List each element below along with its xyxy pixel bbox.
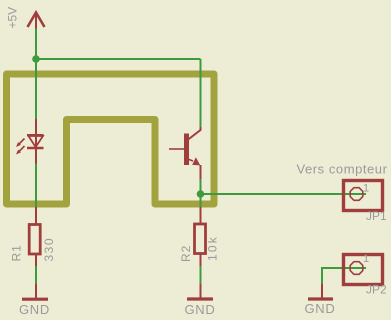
svg-text:JP1: JP1 [366, 209, 387, 223]
svg-text:JP2: JP2 [366, 283, 387, 297]
svg-text:1: 1 [363, 253, 369, 265]
svg-text:10k: 10k [206, 235, 220, 261]
svg-text:GND: GND [19, 302, 50, 317]
svg-text:R2: R2 [179, 245, 193, 262]
svg-text:GND: GND [305, 301, 336, 316]
svg-text:Vers compteur: Vers compteur [297, 162, 388, 177]
svg-text:GND: GND [185, 302, 216, 317]
svg-text:R1: R1 [10, 244, 24, 261]
svg-text:1: 1 [363, 183, 369, 195]
svg-text:+5V: +5V [6, 7, 20, 29]
svg-text:330: 330 [42, 237, 56, 262]
